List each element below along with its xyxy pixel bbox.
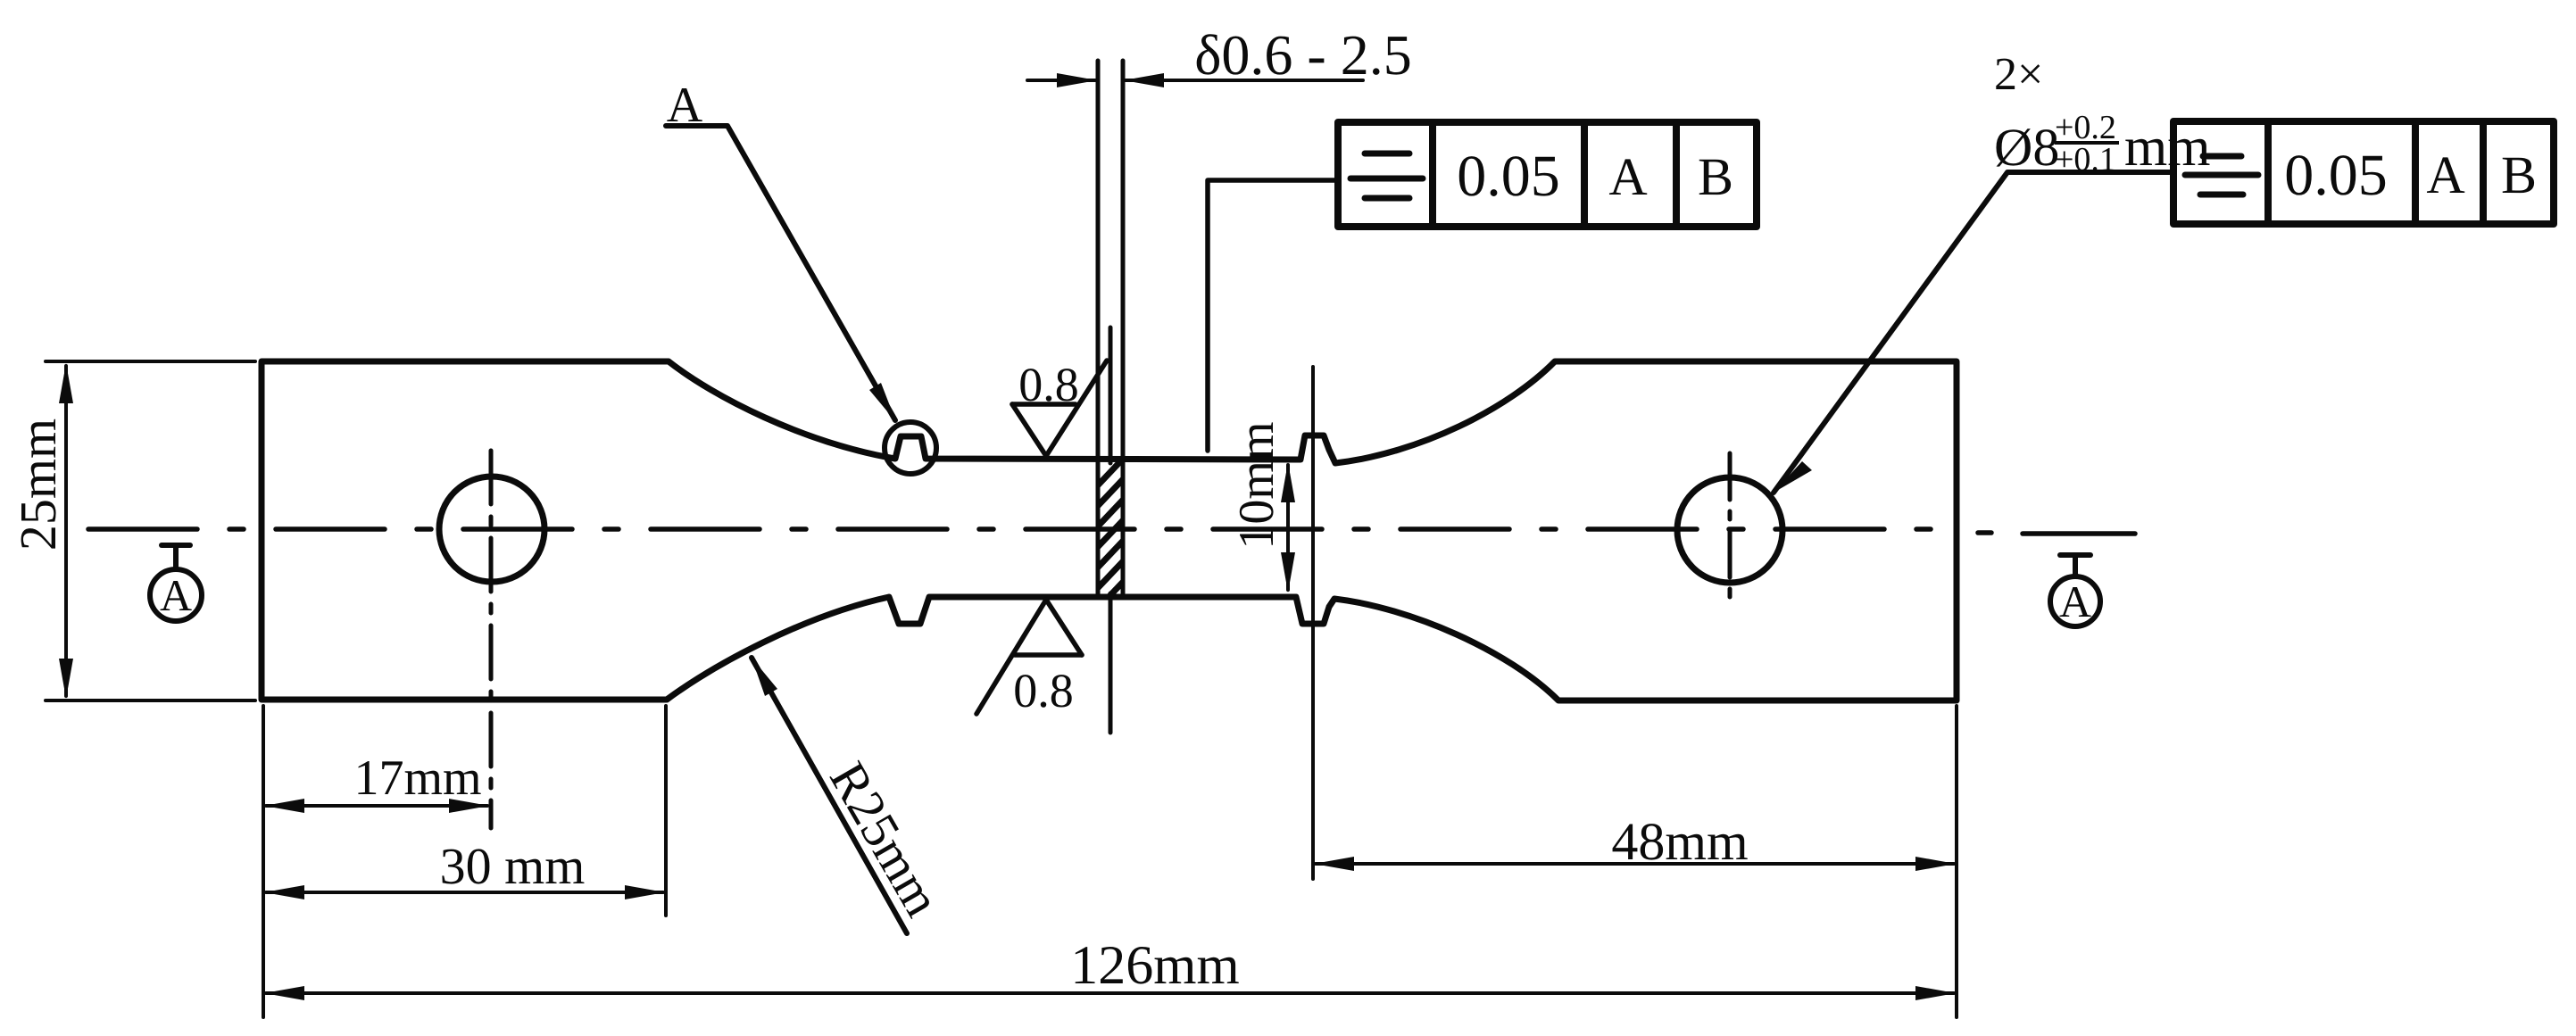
datum A symbol left [150, 545, 202, 621]
arrow 30mm right [625, 885, 665, 899]
sheet thickness line right [1121, 61, 1126, 597]
svg-text:B: B [1698, 147, 1733, 206]
extension 30mm vertical [664, 706, 668, 916]
svg-text:0.05: 0.05 [2284, 143, 2388, 208]
arrow 126mm right [1915, 986, 1956, 1000]
dimension line 30mm [266, 891, 663, 894]
cross-section hatching [1094, 455, 1126, 612]
centerline end dot right [1978, 530, 1991, 535]
svg-text:126mm: 126mm [1070, 935, 1239, 996]
horizontal centerline [88, 526, 1959, 532]
svg-text:A: A [1608, 147, 1647, 206]
left grip hole Ø8 [439, 477, 544, 582]
detail A circle [885, 422, 936, 474]
tolerance fraction bar [2055, 141, 2119, 145]
svg-text:mm: mm [2124, 117, 2210, 178]
specimen outline (dog-bone body with grip sections, fillets and extensometer tabs) [262, 361, 1957, 700]
sheet thickness line left [1096, 61, 1101, 597]
arrow leader R25 [752, 658, 777, 696]
section plane line lower [1109, 593, 1113, 733]
leader frame 1 [1208, 180, 1338, 451]
arrow 126mm left [264, 986, 304, 1000]
svg-text:A: A [2059, 576, 2091, 626]
arrow 10mm up [1281, 462, 1295, 502]
arrowheads [59, 73, 1956, 1000]
svg-text:0.8: 0.8 [1013, 664, 1074, 717]
svg-text:30 mm: 30 mm [440, 837, 586, 895]
symmetry symbol frame 2 [2185, 156, 2258, 195]
arrow delta left [1057, 73, 1097, 87]
svg-text:0.05: 0.05 [1457, 144, 1560, 209]
leader frame 2 to right hole [1774, 172, 2173, 493]
extension right edge vertical [1955, 706, 1958, 1017]
arrow leader A [869, 383, 896, 422]
leader label A [666, 126, 895, 420]
svg-text:25mm: 25mm [9, 419, 67, 551]
arrow 48mm left [1314, 857, 1354, 871]
centerline end dash right [2023, 531, 2135, 536]
symmetry symbol frame 1 [1350, 153, 1423, 198]
extension top left 25mm [46, 360, 255, 363]
svg-text:A: A [2426, 145, 2464, 204]
svg-text:48mm: 48mm [1611, 812, 1748, 871]
svg-text:+0.1: +0.1 [2055, 141, 2116, 178]
dimension line 48mm [1316, 862, 1954, 866]
leader R25 [752, 658, 907, 933]
dimension lines [66, 80, 1954, 993]
feature control frame 2 box [2173, 121, 2554, 224]
extension lines [46, 361, 1957, 1017]
left hole vertical centerline [489, 451, 494, 828]
section plane line upper [1109, 327, 1113, 463]
arrow delta right [1124, 73, 1164, 87]
arrow 48mm right [1915, 857, 1956, 871]
arrow 25mm down [59, 659, 73, 699]
dimension line 17mm [266, 804, 487, 808]
arrow 17mm left [264, 799, 304, 813]
svg-text:0.8: 0.8 [1018, 358, 1079, 411]
svg-text:10mm: 10mm [1229, 421, 1284, 549]
feature control frame 1 box [1338, 122, 1757, 227]
arrow leader hole [1774, 461, 1812, 493]
svg-text:Ø8: Ø8 [1994, 118, 2059, 177]
surface finish symbol top [1012, 361, 1107, 456]
arrow 17mm right [449, 799, 489, 813]
svg-text:17mm: 17mm [353, 750, 481, 806]
arrow 25mm up [59, 363, 73, 403]
extension bottom left 25mm [46, 699, 255, 702]
dimension line 10mm [1286, 465, 1290, 590]
dimension line 126mm [266, 991, 1954, 995]
svg-text:δ0.6 - 2.5: δ0.6 - 2.5 [1194, 23, 1411, 87]
svg-text:2×: 2× [1994, 49, 2043, 100]
datum A symbol right [2050, 555, 2100, 626]
svg-text:A: A [667, 78, 703, 133]
svg-text:A: A [160, 570, 192, 620]
right hole vertical centerline [1728, 453, 1733, 607]
dimension line 25mm [64, 366, 68, 696]
surface finish symbol bottom [976, 600, 1082, 714]
extension 48mm left vertical [1311, 367, 1315, 879]
dimension line delta left [1027, 79, 1095, 82]
arrow 30mm left [264, 885, 304, 899]
extension left edge vertical [262, 706, 265, 1017]
right grip hole Ø8 [1677, 477, 1782, 583]
arrow 10mm down [1281, 552, 1295, 593]
dimension line delta right [1126, 79, 1363, 82]
svg-text:B: B [2501, 145, 2537, 204]
